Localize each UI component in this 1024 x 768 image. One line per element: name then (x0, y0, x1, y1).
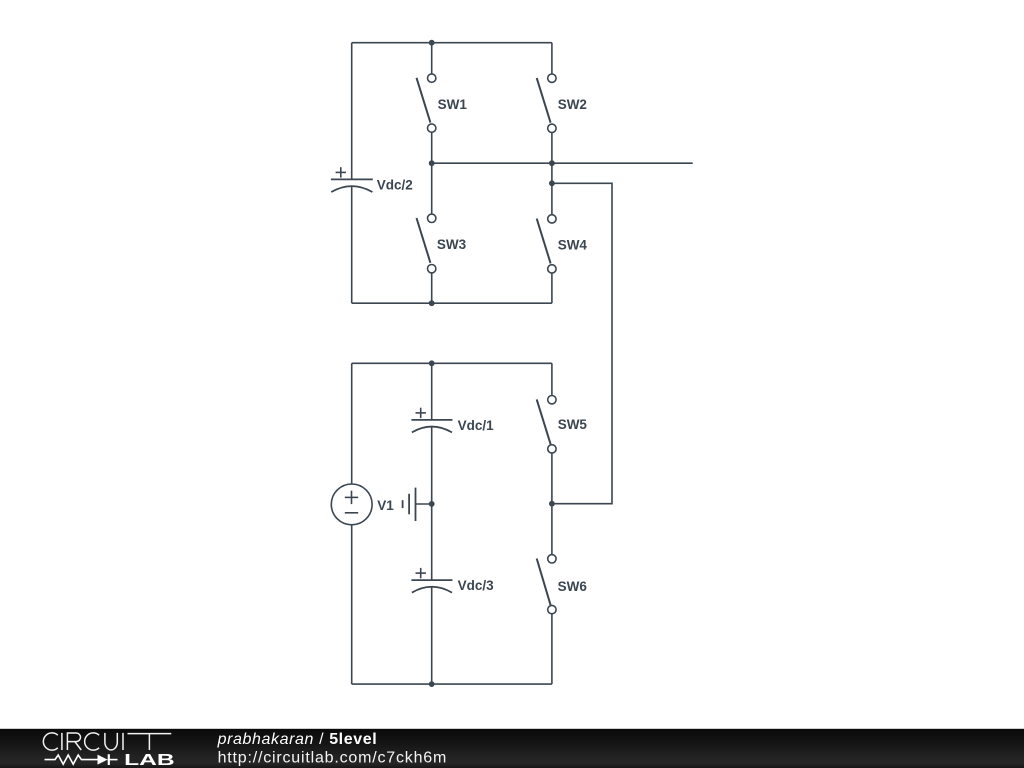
wire output line (432, 162, 693, 164)
wire branch to right rail down to SW5/SW6 node (552, 183, 612, 503)
capacitor Vdc/2 (331, 167, 373, 192)
node source stack top junction (429, 360, 435, 366)
wire top rail of source stack (352, 362, 552, 364)
wire left rail lower (Vdc/2 - to bottom rail) (351, 186, 353, 303)
node output at SW1/SW3 (429, 160, 435, 166)
svg-text:http://circuitlab.com/c7ckh6m: http://circuitlab.com/c7ckh6m (218, 750, 448, 767)
wire Vdc/1 to midpoint node (431, 427, 433, 580)
capacitor Vdc/1 (411, 408, 452, 433)
wire left rail upper (to Vdc/2 +) (351, 43, 353, 180)
wire bottom rail of H-bridge (352, 302, 552, 304)
voltage source V1 (331, 484, 372, 525)
node midpoint (429, 501, 435, 507)
svg-text:V1: V1 (377, 498, 394, 513)
wire left rail to V1 + (351, 363, 353, 484)
node bottom rail junction 2 (429, 681, 435, 687)
node top rail junction (429, 40, 435, 46)
node SW5/SW6 junction (549, 501, 555, 507)
footer bar (0, 729, 1024, 768)
ground (403, 488, 432, 521)
svg-text:Vdc/2: Vdc/2 (377, 178, 413, 193)
wire SW3 bottom (431, 273, 433, 303)
svg-text:LAB: LAB (124, 752, 175, 768)
switch SW1 (417, 74, 436, 132)
logo CIRCUIT (43, 733, 171, 750)
switch SW2 (537, 74, 556, 133)
wire SW2 to SW4 (551, 133, 553, 215)
switch SW5 (537, 396, 556, 454)
svg-text:SW1: SW1 (438, 97, 468, 112)
switch SW3 (417, 214, 436, 273)
wire SW1 to SW3 (431, 132, 433, 214)
wire SW5 to SW6 (551, 453, 553, 554)
svg-text:SW2: SW2 (558, 97, 587, 112)
capacitor Vdc/3 (411, 568, 452, 593)
wire Vdc/3 to bottom rail (431, 587, 433, 684)
svg-text:SW6: SW6 (558, 579, 588, 594)
wire top rail of H-bridge (352, 42, 552, 44)
switch SW6 (537, 555, 556, 614)
wire bottom rail of source stack (352, 683, 552, 685)
wire SW2 stem (551, 43, 553, 74)
node branch junction (549, 180, 555, 186)
svg-text:Vdc/3: Vdc/3 (458, 578, 495, 593)
node bottom rail junction (429, 300, 435, 306)
svg-text:SW4: SW4 (558, 237, 588, 252)
wire mid stem to Vdc/1 (431, 363, 433, 420)
svg-text:prabhakaran / 5level: prabhakaran / 5level (217, 731, 378, 748)
wire SW5 stem (551, 363, 553, 395)
svg-text:SW5: SW5 (558, 417, 588, 432)
wire SW4 bottom (551, 273, 553, 303)
svg-text:Vdc/1: Vdc/1 (458, 418, 495, 433)
wire left rail from V1 - to bottom rail (351, 525, 353, 684)
wire SW6 bottom (551, 614, 553, 684)
switch SW4 (537, 215, 556, 273)
node output at SW2/SW4 (549, 160, 555, 166)
logo resistor and diode (45, 754, 118, 765)
wire SW1 stem (431, 43, 433, 74)
svg-text:SW3: SW3 (437, 237, 467, 252)
